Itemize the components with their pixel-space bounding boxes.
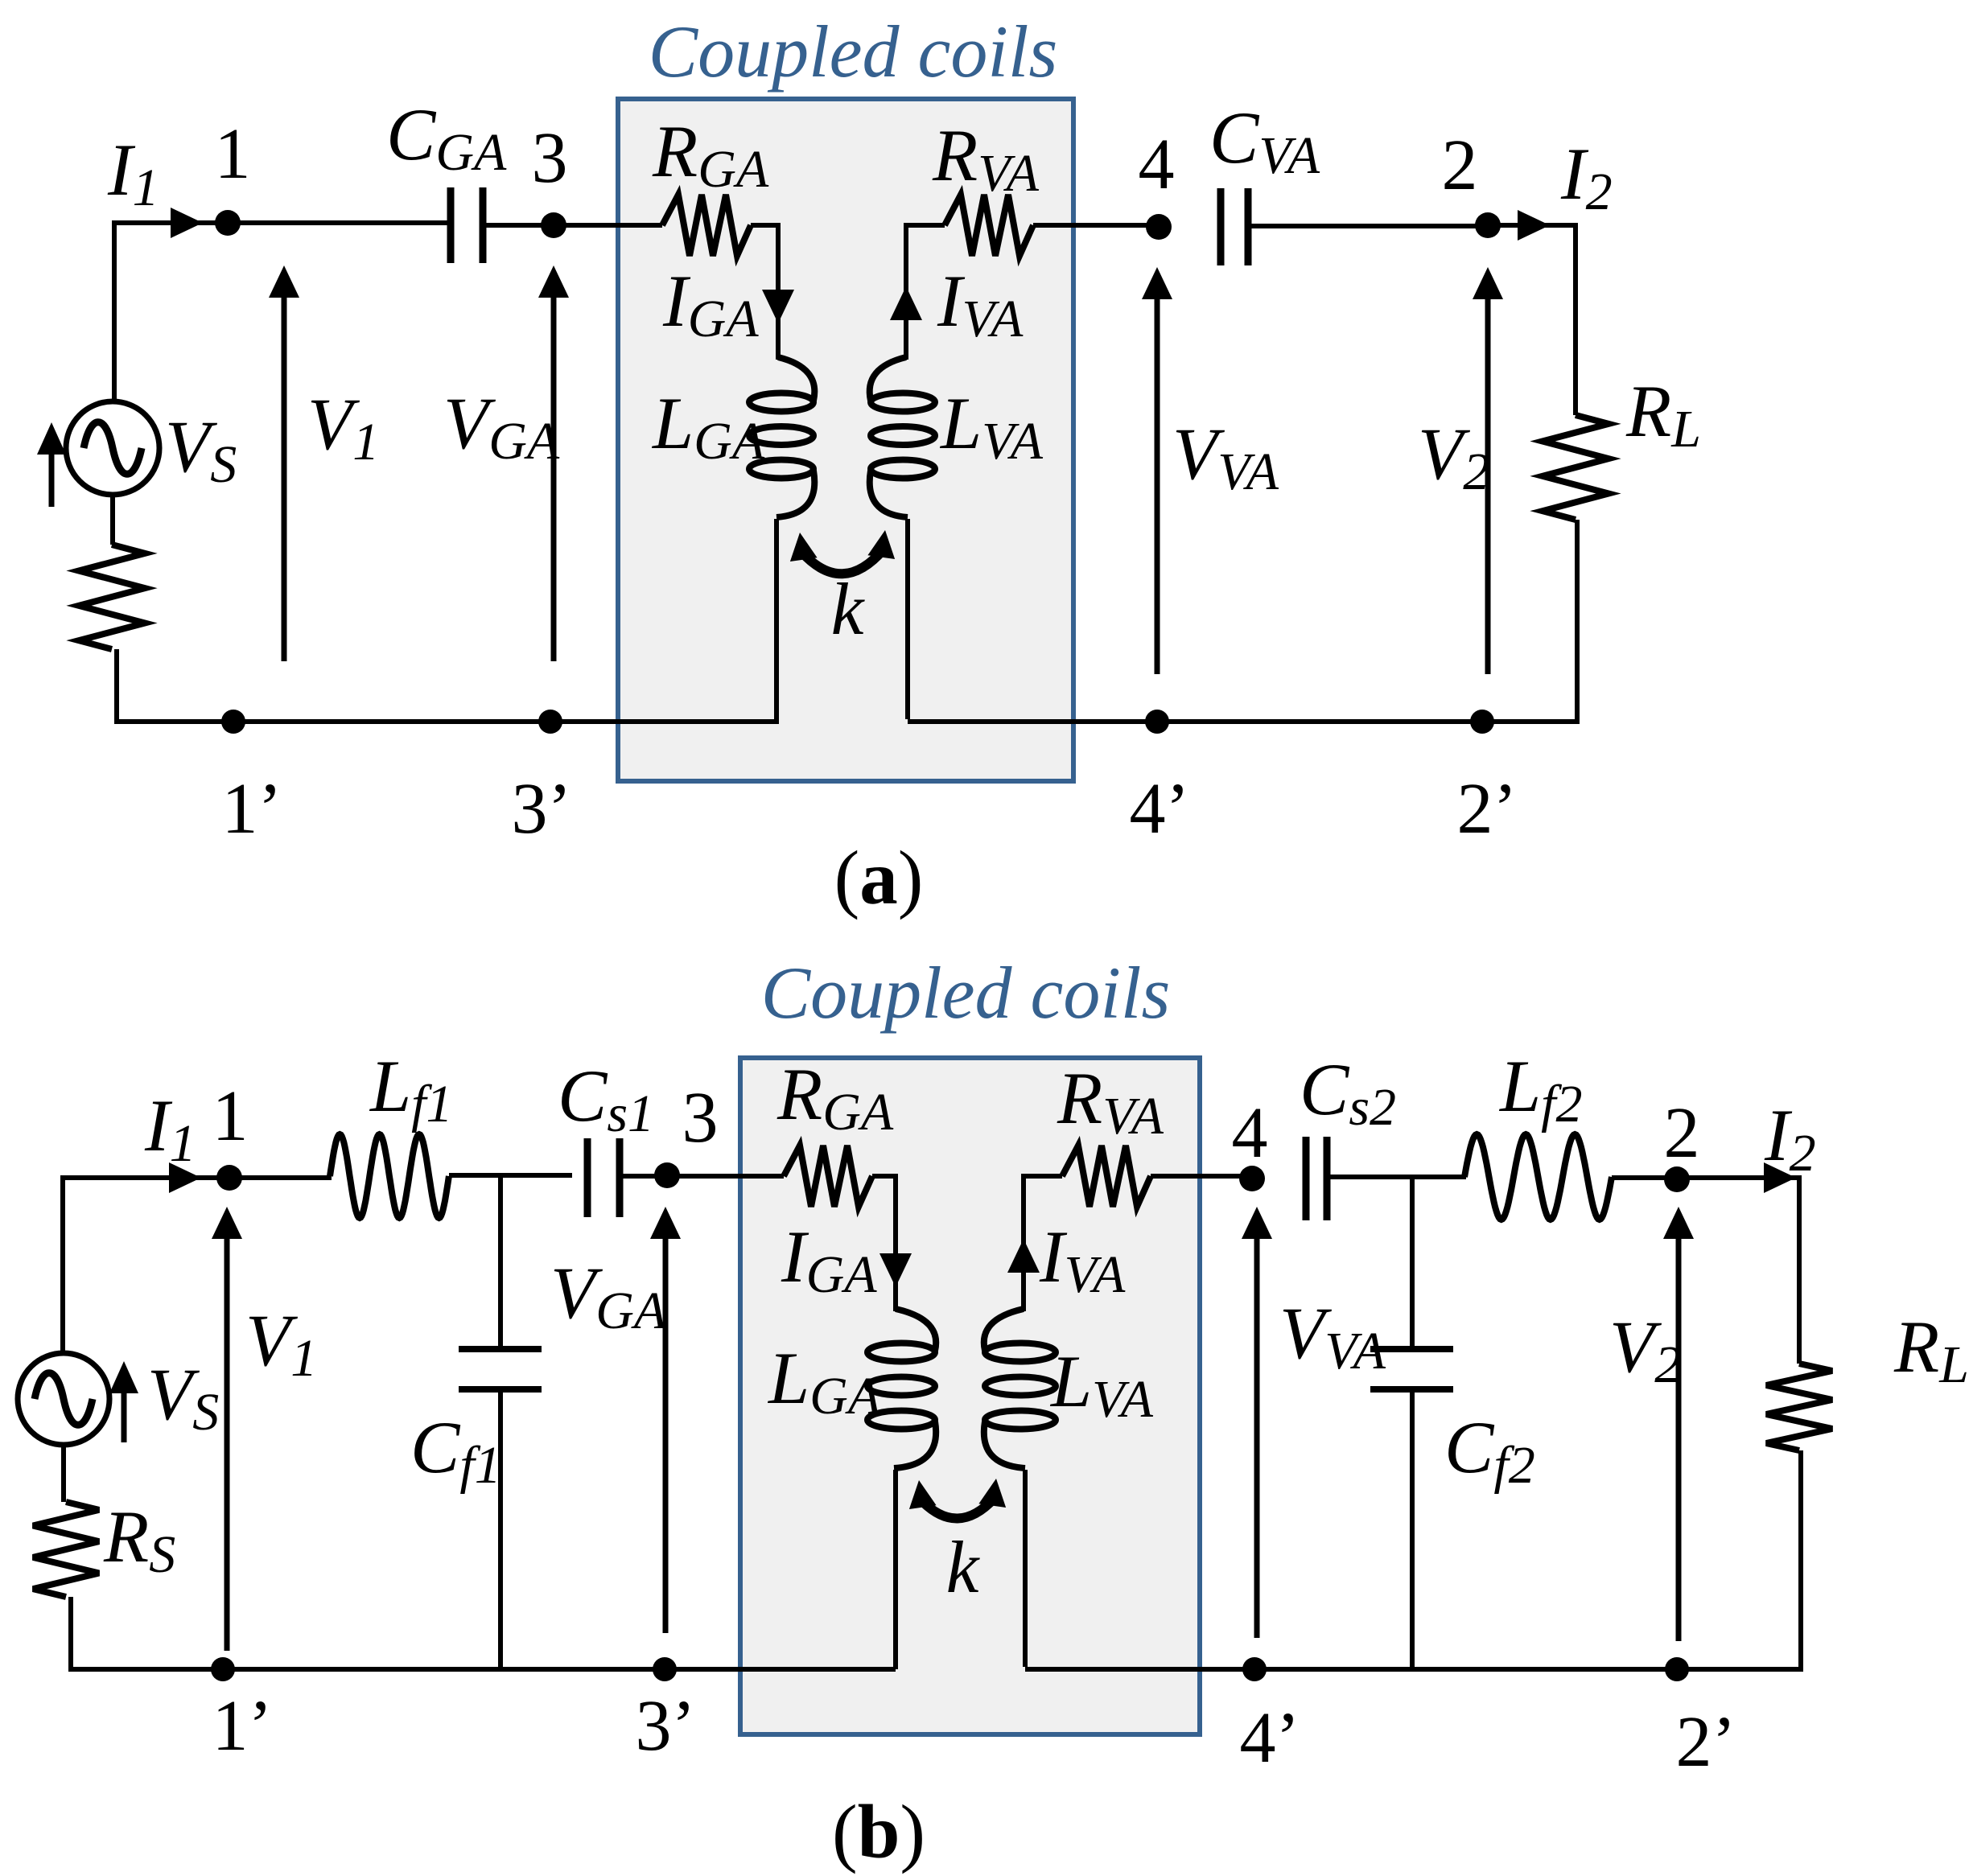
label LVA (fig b) bbox=[1049, 1340, 1154, 1429]
label IVA (fig a) bbox=[937, 260, 1024, 348]
voltage arrow V1 (fig b) bbox=[212, 1207, 242, 1651]
wire CVA to node 2 (fig a) bbox=[1248, 224, 1488, 228]
label RS (fig b) bbox=[103, 1495, 175, 1584]
current arrow IGA (fig a) bbox=[762, 290, 794, 323]
label RL (fig b) bbox=[1893, 1306, 1969, 1394]
label Cs2 bbox=[1300, 1048, 1396, 1137]
wire Lf1 to Cs1 (fig b) bbox=[449, 1173, 572, 1178]
svg-text:4’: 4’ bbox=[1130, 769, 1190, 849]
current arrow IGA (fig b) bbox=[879, 1253, 912, 1287]
node 3' (fig a) bbox=[538, 710, 562, 734]
node 1 (fig b) bbox=[216, 1165, 242, 1191]
wire CGA to node 3 (fig a) bbox=[486, 223, 554, 228]
svg-text:3: 3 bbox=[532, 118, 568, 198]
current arrow I2 (fig b) bbox=[1764, 1162, 1796, 1193]
resistor RS (fig b) bbox=[33, 1502, 99, 1597]
svg-text:(a): (a) bbox=[834, 835, 924, 920]
svg-text:4’: 4’ bbox=[1240, 1698, 1300, 1778]
current arrow I1 (fig b) bbox=[169, 1162, 201, 1193]
voltage arrow V2 (fig a) bbox=[1473, 267, 1503, 674]
label VVA (fig a) bbox=[1172, 413, 1279, 501]
wire node1 to CGA (fig a) bbox=[228, 220, 447, 225]
resistor RGA (fig a) bbox=[662, 195, 751, 256]
node 4 (fig a) bbox=[1146, 214, 1172, 240]
current arrow IVA (fig b) bbox=[1007, 1239, 1040, 1273]
svg-text:k: k bbox=[946, 1526, 981, 1608]
label CVA bbox=[1209, 97, 1320, 185]
wire bottom rail 4'-2' (fig a) bbox=[1157, 719, 1482, 724]
wire LGA to bottom (fig b) bbox=[893, 1470, 898, 1669]
node 3 (fig b) bbox=[654, 1162, 680, 1188]
node 4' (fig b) bbox=[1242, 1657, 1267, 1681]
svg-text:1: 1 bbox=[215, 114, 251, 194]
node 2' (fig a) bbox=[1470, 710, 1494, 734]
label V1 (fig a) bbox=[307, 383, 379, 471]
label 4 (fig a) bbox=[1139, 125, 1175, 204]
label VS (fig b) bbox=[147, 1353, 219, 1442]
inductor Lf1 bbox=[330, 1134, 449, 1218]
label 4' (fig a) bbox=[1130, 769, 1190, 849]
label Coupled coils (figure a) bbox=[649, 10, 1058, 93]
inductor Lf2 bbox=[1464, 1134, 1612, 1220]
label 3 (fig b) bbox=[682, 1078, 719, 1158]
junction Cf1 branch (fig b) bbox=[498, 1175, 503, 1347]
label I1 (fig b) bbox=[144, 1084, 196, 1173]
voltage arrow VGA (fig a) bbox=[538, 265, 569, 661]
wire IVA branch to RVA (fig b) bbox=[1024, 1174, 1062, 1311]
label k (fig b) bbox=[946, 1526, 981, 1608]
label VGA (fig a) bbox=[443, 382, 560, 471]
label V1 (fig b) bbox=[245, 1299, 317, 1388]
wire node 2 to RL (fig a) bbox=[1488, 223, 1576, 415]
current arrow I2 (fig a) bbox=[1518, 210, 1550, 241]
svg-text:2: 2 bbox=[1664, 1093, 1700, 1173]
label 2 (fig b) bbox=[1664, 1093, 1700, 1173]
label I2 (fig a) bbox=[1560, 133, 1613, 221]
node 1' (fig a) bbox=[221, 710, 245, 734]
label LGA (fig b) bbox=[767, 1337, 881, 1426]
label IGA (fig b) bbox=[781, 1216, 877, 1304]
label RVA (fig a) bbox=[932, 114, 1040, 203]
ac source VS (fig a) bbox=[66, 401, 159, 495]
svg-text:2’: 2’ bbox=[1457, 769, 1518, 849]
wire node 2 to RL (fig b) bbox=[1677, 1175, 1799, 1364]
junction Cf2 branch (fig b) bbox=[1410, 1177, 1415, 1348]
label 1 (fig b) bbox=[212, 1076, 249, 1156]
current arrow I1 (fig a) bbox=[171, 208, 203, 238]
wire node3 to RGA (fig a) bbox=[554, 223, 662, 228]
label 3 (fig a) bbox=[532, 118, 568, 198]
label Coupled coils (figure b) bbox=[761, 952, 1171, 1034]
wire top-left (source to node 1, fig b) bbox=[63, 1175, 229, 1353]
svg-text:4: 4 bbox=[1139, 125, 1175, 204]
wire RGA to IGA branch (fig a) bbox=[751, 223, 778, 360]
svg-text:3’: 3’ bbox=[512, 769, 572, 849]
label 1 (fig a) bbox=[215, 114, 251, 194]
wire RGA to IGA branch (fig b) bbox=[872, 1174, 896, 1311]
label LVA (fig a) bbox=[939, 382, 1044, 471]
node 1' (fig b) bbox=[211, 1657, 235, 1681]
capacitor CVA bbox=[1221, 188, 1248, 265]
label 4 (fig b) bbox=[1232, 1093, 1268, 1173]
inductor LGA (fig a) bbox=[749, 357, 814, 517]
wire LGA to bottom (fig a) bbox=[774, 519, 779, 722]
node 3 (fig a) bbox=[541, 212, 566, 238]
wire RL to bottom rail (fig b) bbox=[1677, 1450, 1803, 1669]
resistor RVA (fig b) bbox=[1062, 1146, 1151, 1207]
label IGA (fig a) bbox=[662, 260, 759, 348]
node 2' (fig b) bbox=[1665, 1657, 1689, 1681]
label 2' (fig b) bbox=[1676, 1702, 1736, 1782]
capacitor Cs1 bbox=[587, 1138, 620, 1217]
load resistor RL (fig b) bbox=[1766, 1364, 1832, 1450]
label VGA (fig b) bbox=[550, 1252, 667, 1340]
wire Cf1 to bottom rail (fig b) bbox=[498, 1389, 503, 1669]
voltage arrow VGA (fig b) bbox=[650, 1207, 681, 1633]
wire RS to bottom rail (fig a) bbox=[114, 649, 233, 722]
wire bottom rail 3' to LGA (fig a) bbox=[550, 719, 779, 724]
wire bottom rail 1'-3' (fig a) bbox=[233, 719, 550, 724]
load resistor RL (fig a) bbox=[1543, 415, 1609, 520]
node 4' (fig a) bbox=[1145, 710, 1169, 734]
svg-text:(b): (b) bbox=[832, 1789, 925, 1874]
wire VS to RS (fig b) bbox=[61, 1445, 66, 1502]
capacitor Cs2 bbox=[1306, 1137, 1327, 1220]
ac source VS (fig b) bbox=[18, 1353, 109, 1445]
label 3' (fig a) bbox=[512, 769, 572, 849]
svg-text:1’: 1’ bbox=[212, 1686, 273, 1766]
svg-text:2’: 2’ bbox=[1676, 1702, 1736, 1782]
VS polarity arrow (fig a) bbox=[37, 422, 66, 507]
svg-text:Coupled coils: Coupled coils bbox=[761, 952, 1171, 1034]
wire LVA to bottom (fig b) bbox=[1025, 1470, 1254, 1669]
source resistor (fig a) bbox=[79, 545, 145, 649]
wire Cs1 to node 3 (fig b) bbox=[620, 1174, 667, 1179]
label 4' (fig b) bbox=[1240, 1698, 1300, 1778]
label I1 (fig a) bbox=[107, 129, 159, 217]
resistor RGA (fig b) bbox=[784, 1146, 872, 1207]
svg-text:Coupled coils: Coupled coils bbox=[649, 10, 1058, 93]
svg-text:2: 2 bbox=[1442, 125, 1478, 205]
svg-text:3: 3 bbox=[682, 1078, 719, 1158]
label RGA (fig a) bbox=[652, 110, 769, 199]
svg-text:1: 1 bbox=[212, 1076, 249, 1156]
wire RVA to node 4 (fig b) bbox=[1151, 1174, 1252, 1179]
voltage arrow V1 (fig a) bbox=[269, 265, 299, 661]
coupling arrow k (fig b) bbox=[909, 1479, 1006, 1519]
node 1 (fig a) bbox=[215, 210, 241, 236]
wire LVA to bottom (fig a) bbox=[908, 519, 1157, 722]
resistor RVA (fig a) bbox=[945, 195, 1033, 256]
wire bottom rail 3' to LGA (fig b) bbox=[665, 1667, 896, 1672]
label I2 (fig b) bbox=[1764, 1094, 1816, 1183]
inductor LGA (fig b) bbox=[867, 1309, 936, 1468]
label VVA (fig b) bbox=[1279, 1292, 1386, 1380]
label IVA (fig b) bbox=[1039, 1216, 1126, 1304]
inductor LVA (fig b) bbox=[984, 1309, 1056, 1468]
wire bottom rail 1'-3' (fig b) bbox=[223, 1667, 665, 1672]
label 1' (fig a) bbox=[222, 769, 282, 849]
label Lf1 bbox=[369, 1045, 453, 1133]
wire node1 to Lf1 (fig b) bbox=[229, 1175, 332, 1180]
label RVA (fig b) bbox=[1057, 1057, 1164, 1146]
label LGA (fig a) bbox=[651, 382, 765, 471]
svg-text:k: k bbox=[831, 568, 866, 650]
current arrow IVA (fig a) bbox=[890, 286, 922, 320]
label CGA bbox=[386, 93, 507, 182]
inductor LVA (fig a) bbox=[870, 357, 935, 517]
wire top-left (source to node 1, fig a) bbox=[114, 220, 228, 402]
coupled-coils box (figure b) bbox=[740, 1058, 1200, 1734]
wire IVA branch to RVA (fig a) bbox=[906, 223, 945, 360]
wire node 3 to RGA (fig b) bbox=[667, 1174, 784, 1179]
label V2 (fig b) bbox=[1609, 1306, 1681, 1394]
label 2 (fig a) bbox=[1442, 125, 1478, 205]
node 2 (fig b) bbox=[1664, 1166, 1690, 1192]
label 1' (fig b) bbox=[212, 1686, 273, 1766]
wire RL to bottom rail (fig a) bbox=[1482, 520, 1580, 722]
label V2 (fig a) bbox=[1418, 413, 1489, 501]
svg-text:3’: 3’ bbox=[636, 1686, 696, 1766]
node 3' (fig b) bbox=[653, 1657, 677, 1681]
label 2' (fig a) bbox=[1457, 769, 1518, 849]
voltage arrow V2 (fig b) bbox=[1663, 1207, 1694, 1641]
label 3' (fig b) bbox=[636, 1686, 696, 1766]
wire bottom rail 4'-2' (fig b) bbox=[1254, 1667, 1677, 1672]
label RL (fig a) bbox=[1625, 370, 1701, 459]
node 4 (fig b) bbox=[1239, 1166, 1265, 1191]
svg-text:1’: 1’ bbox=[222, 769, 282, 849]
caption (b) bbox=[832, 1789, 925, 1874]
svg-text:4: 4 bbox=[1232, 1093, 1268, 1173]
capacitor Cf1 bbox=[459, 1349, 542, 1389]
wire Lf2 to node 2 (fig b) bbox=[1612, 1175, 1677, 1180]
wire Cf2 to bottom rail (fig b) bbox=[1410, 1389, 1415, 1669]
capacitor CGA bbox=[451, 187, 483, 263]
label RGA (fig b) bbox=[776, 1053, 894, 1142]
label Lf2 bbox=[1498, 1045, 1583, 1133]
label Cf1 bbox=[410, 1406, 501, 1495]
voltage arrow VVA (fig a) bbox=[1142, 267, 1172, 674]
voltage arrow VVA (fig b) bbox=[1242, 1207, 1272, 1638]
coupled-coils box (figure a) bbox=[618, 99, 1073, 781]
VS polarity arrow (fig b) bbox=[109, 1361, 138, 1442]
label Cf2 bbox=[1444, 1406, 1535, 1495]
capacitor Cf2 bbox=[1370, 1349, 1453, 1389]
wire VS to RS (fig a) bbox=[110, 495, 115, 545]
label VS (fig a) bbox=[165, 405, 237, 494]
caption (a) bbox=[834, 835, 924, 920]
coupling arrow k (fig a) bbox=[790, 530, 895, 574]
label Cs1 bbox=[558, 1055, 654, 1143]
wire Cs2 to Lf2 (fig b) bbox=[1330, 1175, 1466, 1179]
wire RS to bottom rail (fig b) bbox=[68, 1597, 223, 1669]
label k (fig a) bbox=[831, 568, 866, 650]
wire RVA to node 4 (fig a) bbox=[1033, 223, 1159, 228]
node 2 (fig a) bbox=[1475, 212, 1501, 238]
